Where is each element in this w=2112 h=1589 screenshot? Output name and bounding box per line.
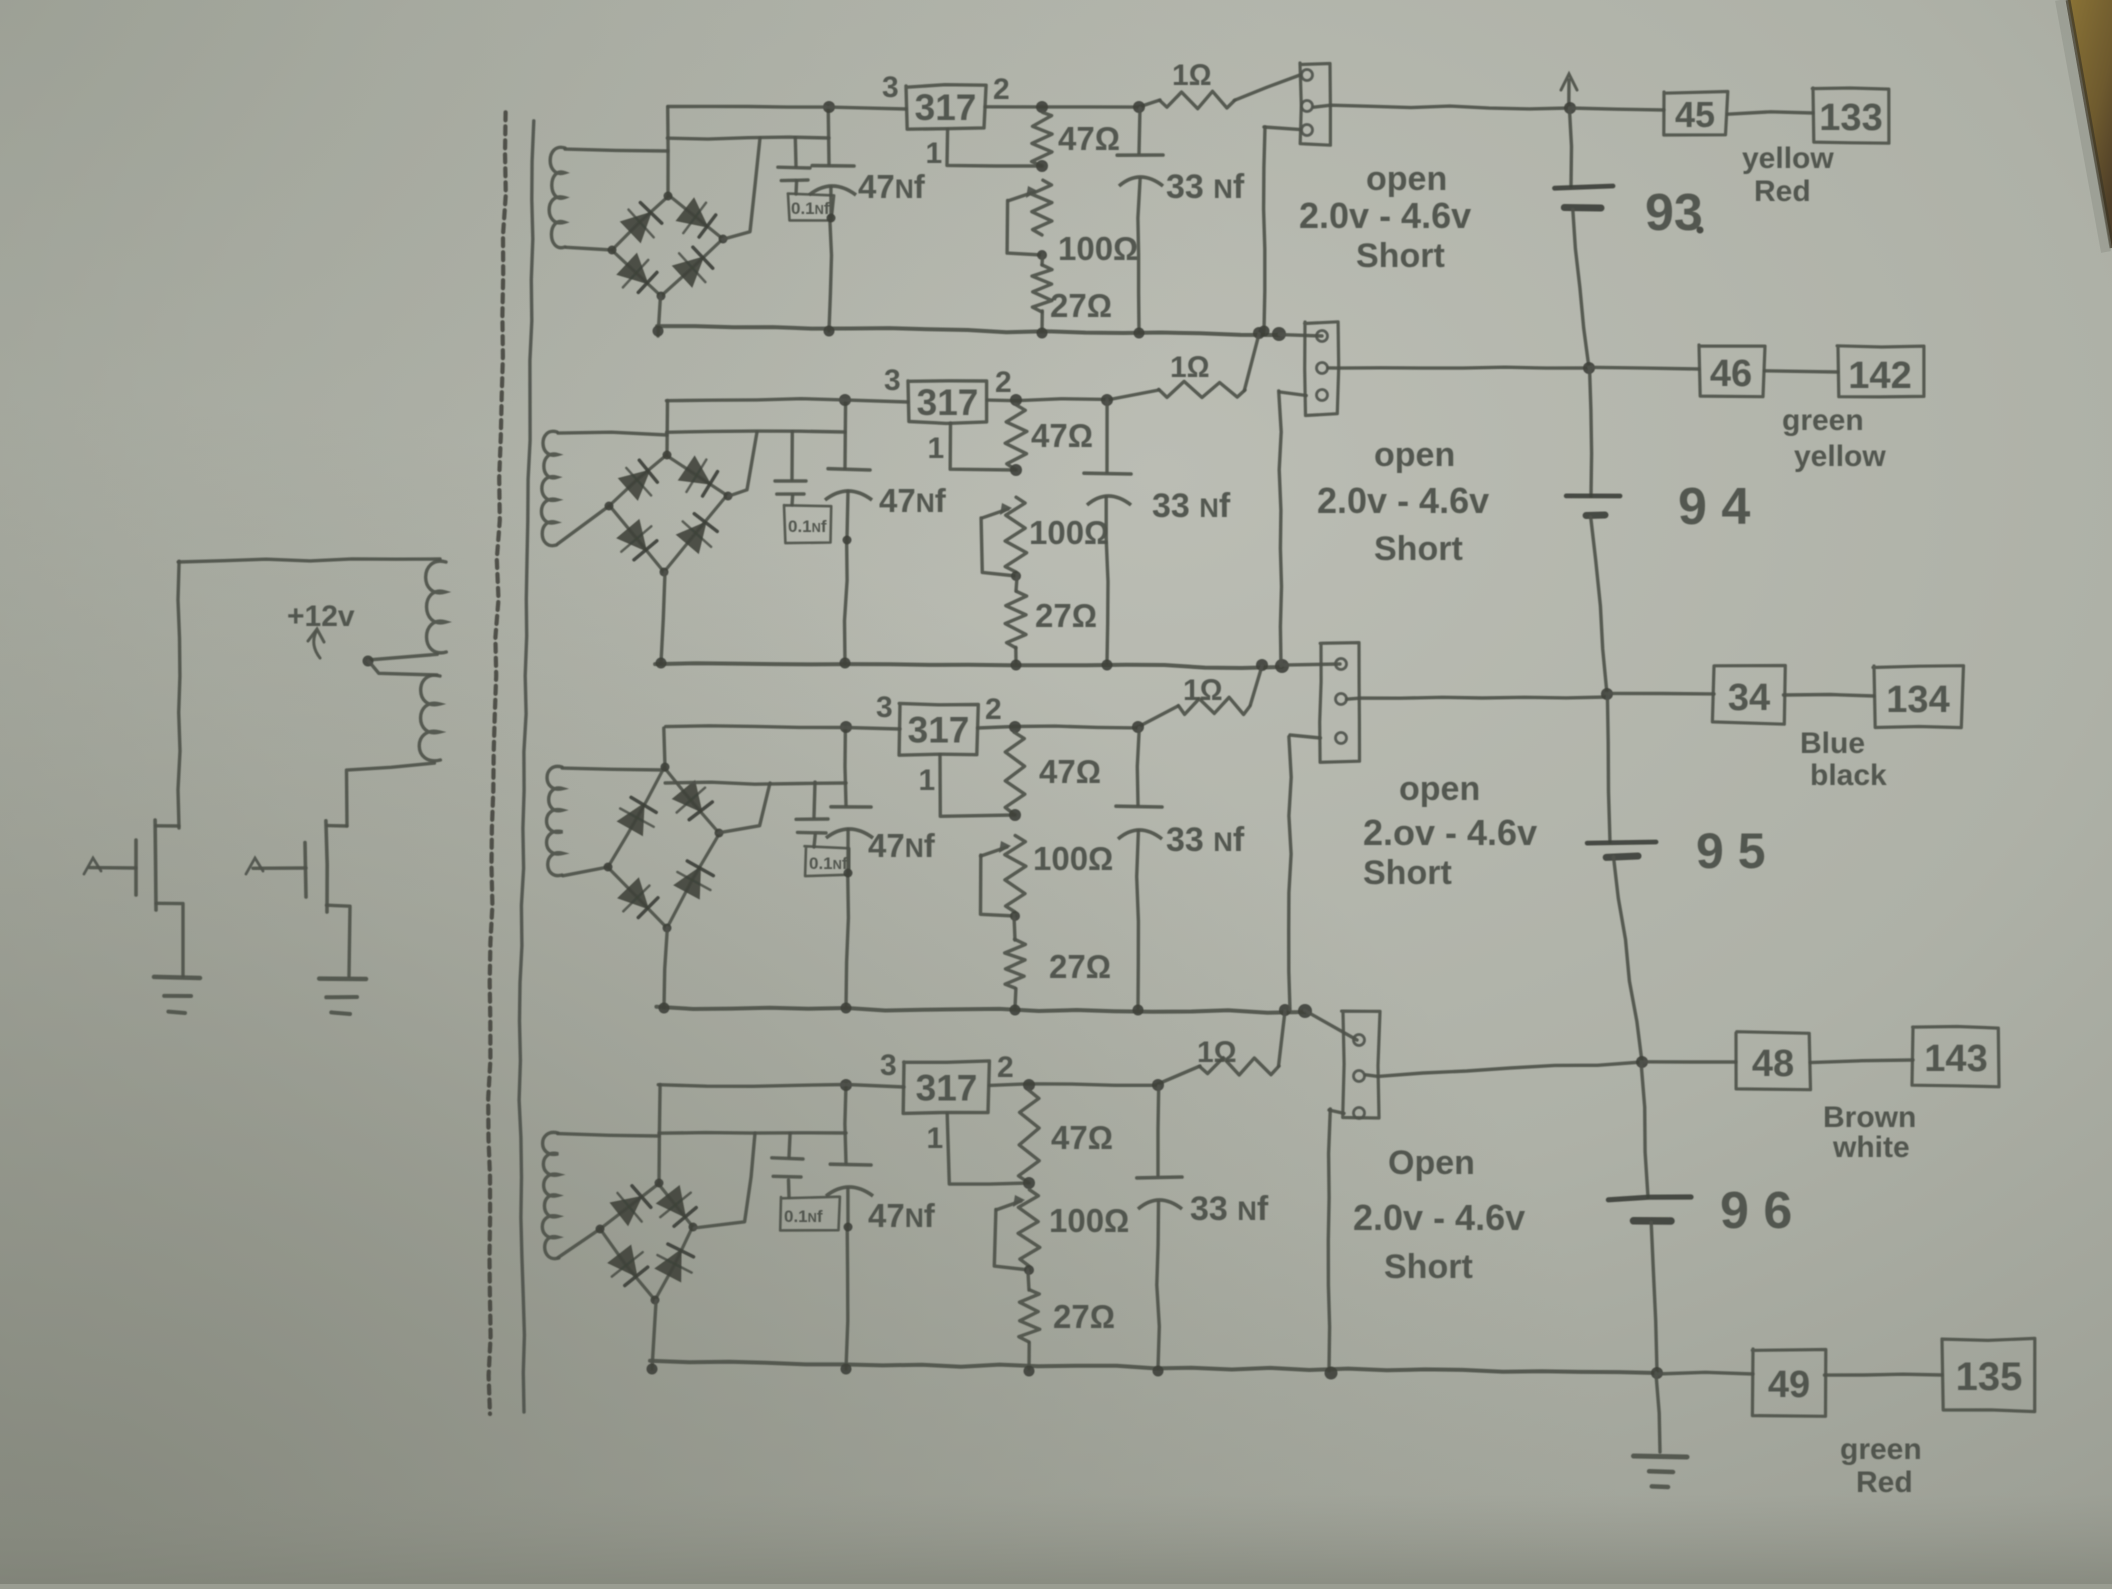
resistor 47ohm block 4 [1019,1090,1040,1183]
svg-text:48: 48 [1752,1043,1794,1085]
connector J3 box [1320,643,1360,763]
label open block 1 [1366,160,1447,198]
capacitor 47uF plates block 2 [825,469,872,500]
svg-text:yellow: yellow [1742,142,1834,175]
svg-text:47Ω: 47Ω [1058,120,1120,157]
bridge rectifier edge bottom-right block 4 [655,1226,693,1300]
junction dot divider top block 1 [1036,160,1048,172]
transistor Q1 source stub [156,903,183,976]
wire bus2-end to connector J3 top pin [1282,664,1340,665]
svg-text:142: 142 [1848,355,1911,397]
connector J2 pins [1317,331,1328,401]
label 33uF block 1 [1166,168,1245,206]
wire pot to 27ohm block 3 [1014,915,1015,940]
wire connector J1 output [1314,105,1570,109]
ground symbol Q2 [319,979,366,1014]
wire box49 to box135 [1825,1372,1943,1376]
wire 27ohm to bus block 3 [1013,989,1017,1008]
capacitor 0.1uF branch block 4 [772,1134,803,1198]
label 317 block 4 [916,1068,978,1109]
junction dot filter top block 2 [839,394,851,406]
potentiometer 100ohm block 2 [1005,497,1027,572]
svg-text:open: open [1374,436,1455,474]
bridge rectifier edge bottom-right block 2 [664,496,727,573]
diode D1 block 1 [622,203,662,242]
wire top-bus corner down to bridge block 2 [665,401,669,456]
label open block 2 [1374,436,1455,474]
resistor 1ohm block 2 [1159,381,1245,397]
wire filter vertical block 3 [845,727,848,1008]
svg-text:47Ω: 47Ω [1039,753,1101,790]
svg-text:100Ω: 100Ω [1029,514,1109,551]
diode D3 block 4 [609,1246,648,1285]
label green (pair 49-135) [1840,1433,1922,1466]
label 0.1uf block 3 [809,854,848,873]
label 1ohm block 4 [1197,1036,1237,1069]
battery 96 [1608,1062,1691,1371]
pot wiper arrow block 2 [981,503,1016,576]
svg-text:47Ω: 47Ω [1051,1119,1113,1156]
transformer secondary winding block 4 [542,1132,559,1258]
resistor 1ohm block 4 [1200,1058,1280,1075]
transistor Q1 gate lead [84,858,136,874]
label 0.1uf block 2 [788,517,827,536]
resistor 47ohm block 1 [1032,112,1053,166]
label 94 [1678,478,1750,536]
wire 33uF vertical block 3 [1137,728,1140,1008]
junction dot output 1 [1564,102,1576,114]
label 0.1uf block 1 [791,199,830,218]
junction dot filter top block 1 [823,101,835,113]
ground symbol main [1634,1373,1688,1487]
svg-text:3: 3 [884,364,901,397]
connector J4 pins [1354,1035,1365,1119]
wire connector J4 output [1366,1062,1642,1076]
label white (pair 48-143) [1832,1131,1910,1164]
svg-text:white: white [1832,1131,1910,1164]
label 27ohm block 2 [1035,597,1097,634]
terminal box 135 [1942,1338,2035,1411]
wire pin1 to divider block 1 [947,129,1042,166]
label Red (pair 45-133) [1754,175,1811,208]
pin label 2 block 2 [995,366,1012,399]
label +12v [287,600,355,633]
resistor 1ohm block 1 [1160,91,1235,108]
svg-text:green: green [1782,404,1864,437]
svg-text:100Ω: 100Ω [1049,1202,1129,1239]
label 1ohm block 2 [1170,351,1210,384]
diode D2 block 3 [674,782,713,820]
label voltage range block 1 [1299,195,1471,236]
wire connector J2 ground pin [1280,392,1306,396]
wire connector J3 ground pin [1290,735,1320,738]
label short block 3 [1363,854,1452,892]
label Red (pair 49-135) [1856,1466,1913,1499]
svg-text:yellow: yellow [1794,440,1886,473]
wire winding bottom to Q2 [347,763,435,826]
svg-text:33 Nf: 33 Nf [1152,487,1231,525]
label 47uF block 4 [868,1197,936,1234]
junction dot pot bottom block 2 [1011,571,1021,581]
label 1ohm block 1 [1172,59,1212,92]
svg-text:47Nf: 47Nf [868,1197,936,1234]
wire pot to 27ohm block 2 [1016,575,1017,591]
label 317 block 2 [917,382,979,423]
svg-text:1Ω: 1Ω [1183,674,1223,707]
junction dot pot bottom block 1 [1037,250,1047,260]
label 47uF block 3 [868,827,936,864]
svg-text:27Ω: 27Ω [1035,597,1097,634]
svg-text:2: 2 [995,366,1012,399]
wire winding-top to bridge column block 2 [558,432,667,435]
bridge node dots block 1 [608,192,728,301]
transistor Q2 channel bar [326,821,327,912]
bridge rectifier edge top-right block 1 [669,195,723,239]
label green (pair 46-142) [1782,404,1864,437]
svg-text:2.ov - 4.6v: 2.ov - 4.6v [1363,812,1537,853]
capacitor 33uF plates block 3 [1116,806,1162,839]
wire box46 to box142 [1765,371,1838,372]
label 47uF block 2 [879,482,947,519]
label 96 [1720,1182,1792,1240]
wire output1 to box45 [1570,108,1665,110]
wire pot to 27ohm block 1 [1040,255,1044,265]
transistor Q1 channel bar [153,820,157,910]
diode D4 block 1 [674,247,713,286]
wire bridge plus to filter node block 2 [667,431,845,496]
ground bus junction dots block 3 [659,1003,1144,1016]
wire connector J2 ground drop [1279,391,1282,666]
wire top bus to regulator block 1 [668,106,906,109]
wire winding-bottom to bridge left block 1 [566,247,612,250]
junction dot divider top block 2 [1010,464,1022,476]
svg-text:3: 3 [880,1049,897,1082]
wire winding-bottom to bridge left block 4 [558,1229,600,1258]
regulator 317 box block 3 [899,703,978,755]
svg-text:2: 2 [997,1051,1014,1084]
diode D2 block 4 [658,1187,697,1226]
svg-text:46: 46 [1710,353,1752,395]
label voltage range block 3 [1363,812,1537,853]
bridge rectifier edge bottom-left block 1 [613,251,661,296]
label 33uF block 4 [1190,1190,1269,1228]
svg-text:Short: Short [1384,1248,1473,1286]
label voltage range block 4 [1353,1197,1525,1238]
junction dot pot bottom block 3 [1010,911,1020,921]
junction dot filter bottom block 2 [843,536,852,545]
svg-text:45: 45 [1675,94,1715,135]
center tap step wire [368,661,437,676]
node arrow +V top [1561,74,1577,109]
wire bus3-end to connector J4 top pin [1305,1010,1358,1040]
bridge node dots block 3 [604,763,724,933]
wire 1ohm to connector J1 [1234,75,1300,100]
junction dot pot bottom block 4 [1024,1265,1034,1275]
wire regulator output block 2 [987,390,1159,401]
ground bus end dots block 1 [1253,327,1286,341]
wire bridge plus to filter node block 1 [667,137,829,239]
wire bridge bottom to ground bus block 1 [658,296,661,336]
pin label 2 block 1 [993,73,1010,106]
wire winding-top to bridge column block 1 [565,149,668,151]
pin label 1 block 2 [928,432,945,465]
terminal box 48 [1736,1032,1811,1090]
pin label 3 block 1 [882,71,899,104]
junction dot output 2 [1583,362,1595,374]
junction dot regulator output block 1 [1036,101,1048,113]
label 100ohm block 1 [1058,230,1138,267]
label 93 [1645,184,1704,242]
label 47ohm block 4 [1051,1119,1113,1156]
connector J1 pins [1302,70,1313,136]
label short block 2 [1374,530,1463,568]
wire bus1-end to connector J2 top pin [1279,335,1322,336]
bridge rectifier edge bottom-left block 4 [600,1228,656,1300]
transformer secondary winding block 2 [541,431,557,545]
junction dot regulator output block 3 [1009,721,1021,733]
svg-text:green: green [1840,1433,1922,1466]
svg-text:1: 1 [928,432,945,465]
svg-text:135: 135 [1956,1355,2023,1399]
svg-text:317: 317 [916,1068,978,1109]
transistor Q2 gate bar [305,843,306,898]
connector J2 box [1305,322,1339,416]
label box 0.1uF block 4 [780,1197,840,1231]
svg-text:47Nf: 47Nf [879,482,947,519]
ground bus junction dots block 2 [656,658,1113,671]
capacitor 0.1uF branch block 1 [778,138,810,195]
junction dot divider top block 3 [1009,809,1021,821]
svg-text:317: 317 [915,87,977,128]
pin label 3 block 2 [884,364,901,397]
label open block 4 [1388,1144,1475,1182]
label box 0.1uF block 1 [788,194,834,221]
svg-text:100Ω: 100Ω [1058,230,1138,267]
wire 33uF vertical block 1 [1138,108,1140,331]
label 0.1uf block 4 [784,1207,823,1226]
junction dot output 4 [1636,1056,1648,1068]
label 95 [1696,823,1766,879]
label 47ohm block 1 [1058,120,1120,157]
wire connector J3 ground drop [1289,737,1292,1010]
fold line left (dashed) [488,112,506,1414]
svg-text:Brown: Brown [1823,1101,1916,1134]
resistor 47ohm block 3 [1005,732,1025,815]
label black (pair 34-134) [1810,759,1887,792]
wire top-bus corner down to bridge block 4 [659,1085,660,1184]
junction dot filter bottom block 4 [844,1223,853,1232]
pin label 1 block 4 [927,1122,944,1155]
svg-text:317: 317 [908,710,970,751]
potentiometer 100ohm block 4 [1018,1190,1040,1266]
junction dot regulator output block 4 [1023,1079,1035,1091]
svg-text:black: black [1810,759,1887,792]
label box 0.1uF block 3 [805,846,850,876]
pin label 3 block 4 [880,1049,897,1082]
svg-text:9 5: 9 5 [1696,823,1766,879]
svg-text:0.1Nf: 0.1Nf [809,854,848,873]
wire pin1 to divider block 2 [950,423,1016,470]
wire top bus to regulator block 3 [666,726,900,729]
junction dot center tap [363,656,374,667]
diode D2 block 2 [680,457,718,496]
svg-text:0.1Nf: 0.1Nf [788,517,827,536]
wire 1ohm to bus-end node block 3 [1250,666,1262,705]
ground bus end dots block 3 [1279,1004,1312,1018]
center tap wire [368,654,437,660]
wire connector J2 output [1328,366,1589,370]
wire connector J1 ground pin [1264,127,1301,130]
label 33uF block 3 [1166,821,1245,859]
bridge rectifier edge bottom-right block 3 [667,834,719,928]
ground bus block 1 [657,326,1279,335]
bridge rectifier edge top-right block 4 [658,1184,693,1227]
resistor 27ohm block 1 [1032,265,1052,312]
svg-text:2.0v - 4.6v: 2.0v - 4.6v [1317,480,1489,521]
svg-text:Red: Red [1754,175,1811,208]
diode D4 block 3 [675,861,713,898]
bridge rectifier edge top-right block 2 [666,455,728,496]
wire pot to 27ohm block 4 [1028,1270,1029,1290]
svg-text:1Ω: 1Ω [1172,59,1212,92]
wire pin1 to divider block 4 [947,1114,1029,1184]
pin label 1 block 1 [926,137,943,170]
wire 27ohm to bus block 4 [1027,1343,1031,1369]
pot wiper arrow block 3 [981,841,1016,916]
svg-text:0.1Nf: 0.1Nf [784,1207,823,1226]
terminal box 134 [1873,666,1964,728]
junction dot divider top block 4 [1023,1177,1035,1189]
wire bridge bottom to ground bus block 3 [664,928,667,1009]
junction dot filter bottom block 1 [827,214,836,223]
label yellow (pair 45-133) [1742,142,1834,175]
battery 94 [1566,367,1620,694]
label yellow (pair 46-142) [1794,440,1886,473]
wire top-bus corner down to bridge block 3 [664,728,665,767]
capacitor 33uF plates block 4 [1137,1177,1182,1209]
svg-text:Short: Short [1363,854,1452,892]
bridge rectifier edge top-left block 3 [608,768,664,867]
wire output3 to box34 [1606,692,1714,696]
bridge node dots block 2 [605,451,733,577]
connector J3 pins [1336,659,1347,744]
capacitor 47uF plates block 3 [826,807,873,838]
terminal box 142 [1837,346,1924,397]
transformer secondary winding block 1 [549,147,565,247]
wire 33uF vertical block 2 [1106,400,1108,663]
label short block 1 [1356,237,1445,275]
ground bus end dots block 2 [1256,659,1289,673]
pin label 2 block 4 [997,1051,1014,1084]
fold line right [519,121,534,1412]
svg-text:Blue: Blue [1800,727,1865,760]
transistor Q1 gate bar [134,840,138,895]
label 47uF block 1 [858,168,926,205]
label 1ohm block 3 [1183,674,1223,707]
transistor Q1 drain stub [156,824,179,828]
pin label 1 block 3 [919,764,936,797]
ground bus junction dots block 1 [653,326,1145,339]
ground bus block 4 [650,1361,1657,1373]
junction dot filter top block 4 [840,1079,852,1091]
junction dot filter bottom block 3 [844,869,853,878]
svg-text:2: 2 [993,73,1010,106]
left circuit left drop [178,561,180,828]
wire regulator output block 4 [990,1066,1201,1085]
wire bridge plus to filter node block 3 [665,782,846,833]
diode D3 block 1 [618,255,657,293]
diode D1 block 3 [619,797,657,834]
svg-text:134: 134 [1886,679,1949,721]
bridge rectifier edge top-left block 4 [600,1183,659,1229]
diode D1 block 4 [611,1186,651,1225]
svg-text:Short: Short [1356,237,1445,275]
svg-text:1: 1 [927,1122,944,1155]
wire connector J3 output [1347,697,1608,699]
label 317 block 1 [915,87,977,128]
transistor Q2 gate lead [246,858,306,874]
svg-text:open: open [1366,160,1447,198]
junction dot 33uF top block 1 [1133,101,1145,113]
bridge rectifier edge top-left block 2 [609,455,667,506]
bridge rectifier edge bottom-left block 3 [607,866,667,928]
wire bridge bottom to ground bus block 4 [652,1300,656,1369]
wire connector J4 ground drop [1328,1109,1330,1371]
transistor Q2 source stub [327,905,351,976]
svg-text:33 Nf: 33 Nf [1166,168,1245,206]
resistor 27ohm block 2 [1005,591,1026,648]
svg-text:27Ω: 27Ω [1050,287,1112,324]
wire 33uF vertical block 4 [1157,1086,1160,1369]
svg-text:2: 2 [985,693,1002,726]
transistor Q2 drain stub [328,824,347,828]
battery 93 [1555,108,1614,368]
svg-text:3: 3 [876,691,893,724]
wire box34 to box134 [1784,695,1875,697]
svg-text:133: 133 [1819,97,1882,139]
wire pin1 to divider block 3 [940,755,1015,816]
svg-text:93: 93 [1645,184,1703,242]
svg-text:0.1Nf: 0.1Nf [791,199,830,218]
svg-text:27Ω: 27Ω [1049,948,1111,985]
label 47ohm block 2 [1031,417,1093,454]
junction dot ground node [1651,1367,1663,1379]
wire winding-top to bridge column block 3 [562,768,665,770]
label box 0.1uF block 2 [784,505,831,543]
wire bridge bottom to ground bus block 2 [661,572,665,663]
diode D3 block 3 [619,879,658,917]
wire top bus to regulator block 2 [667,399,909,402]
svg-text:Open: Open [1388,1144,1475,1182]
wire 1ohm to bus-end node block 4 [1279,1011,1286,1066]
junction dot ground drop J1 [1259,326,1270,337]
ground symbol Q1 [154,977,200,1013]
wire bridge plus to filter node block 4 [659,1133,846,1228]
svg-text:33 Nf: 33 Nf [1166,821,1245,859]
connector J1 box [1300,63,1330,145]
wire filter vertical block 1 [828,106,831,331]
pot wiper arrow block 4 [994,1195,1029,1270]
ground bus block 3 [656,1007,1305,1013]
svg-text:317: 317 [917,382,979,423]
terminal box 49 [1752,1349,1826,1416]
terminal box 34 [1712,666,1785,725]
transformer secondary winding block 3 [547,766,563,875]
battery 95 [1587,695,1656,1062]
potentiometer 100ohm block 1 [1031,180,1052,235]
label short block 4 [1384,1248,1473,1286]
label 47ohm block 3 [1039,753,1101,790]
